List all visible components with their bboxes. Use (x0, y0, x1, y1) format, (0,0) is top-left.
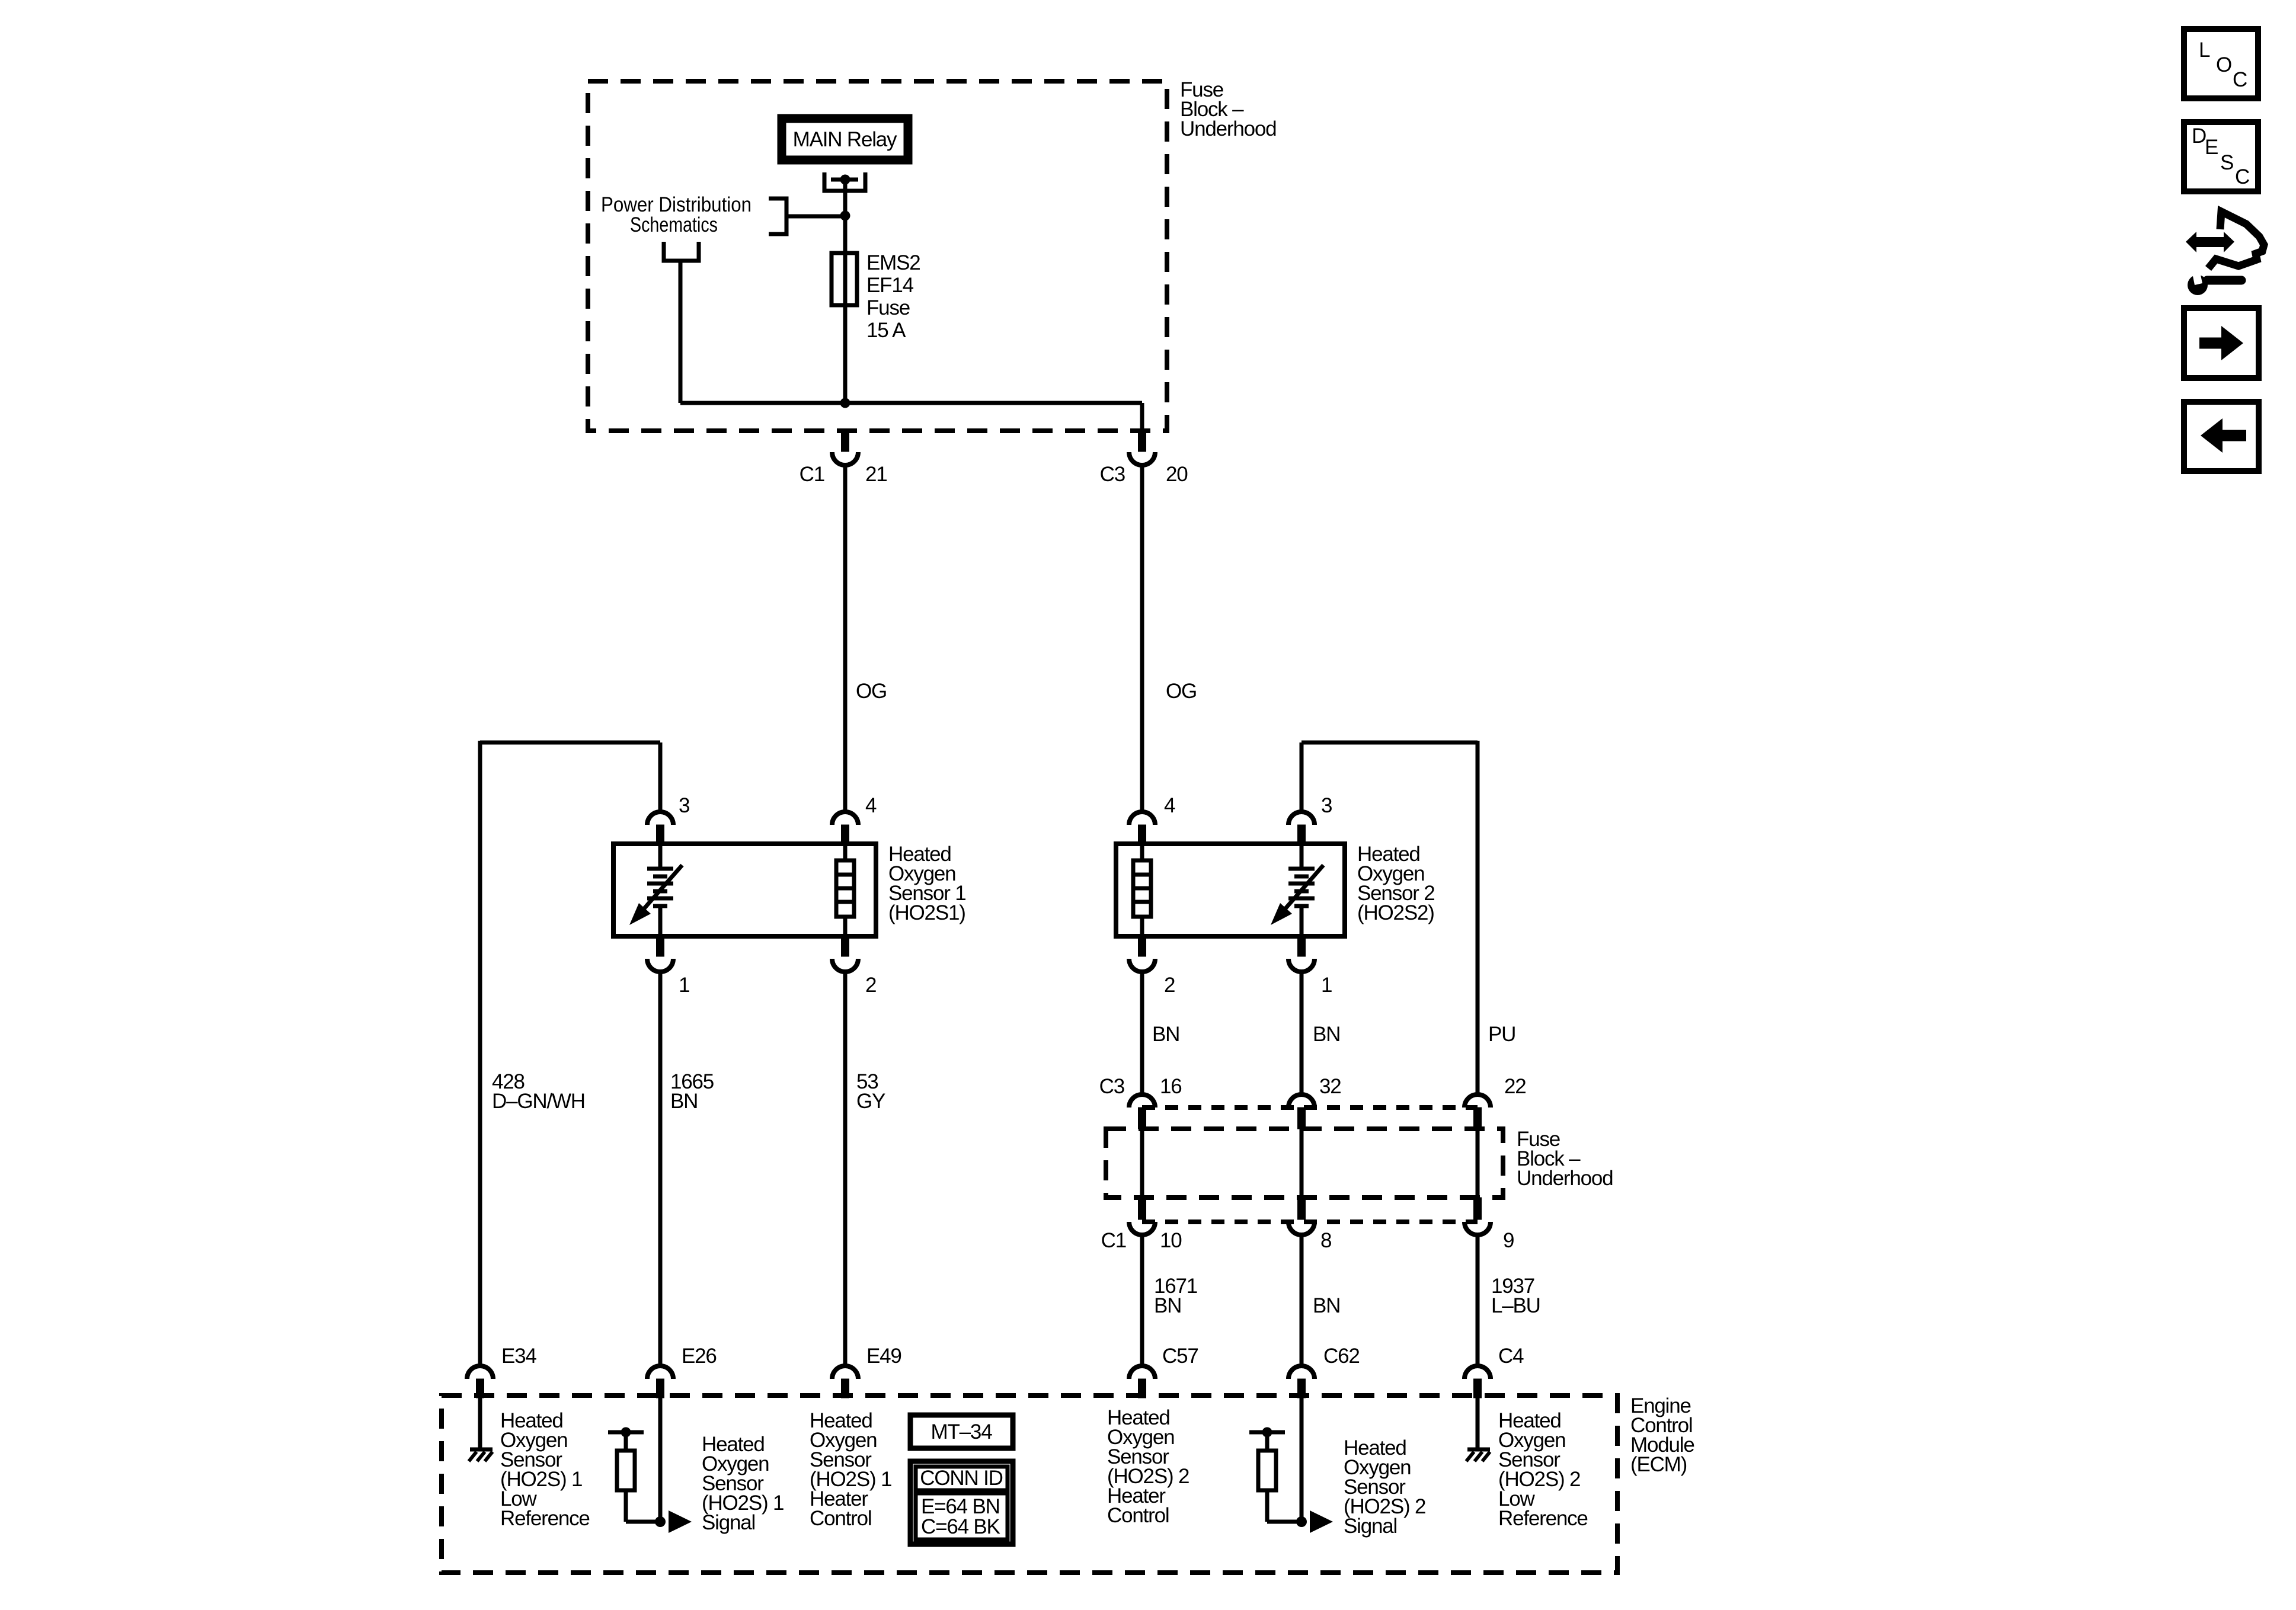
wire C1-21 down to HO2S1 pin 4 (OG) (843, 465, 848, 813)
svg-text:3: 3 (1321, 794, 1332, 817)
wire relay to junction (843, 180, 848, 216)
label HO2S1 Low Reference (500, 1409, 590, 1530)
connector HO2S1 pin 2 (pin+cup) (832, 936, 858, 975)
label pin 3 (HO2S2) (1321, 794, 1332, 817)
svg-text:1: 1 (679, 974, 689, 997)
sensor HO2S2 box (1116, 844, 1345, 936)
label Engine Control Module (ECM) (1630, 1394, 1694, 1476)
label C57 (1162, 1345, 1198, 1368)
svg-text:4: 4 (865, 794, 877, 817)
fuse block 2 dashed box (1106, 1129, 1503, 1198)
wire 8 to C62 (BN) (1300, 1235, 1304, 1366)
connector C62 (dome+pin) (1288, 1366, 1315, 1398)
label pin 3 (HO2S1) (679, 794, 689, 817)
label pin 2 (HO2S2) (1164, 974, 1175, 997)
svg-text:GY: GY (856, 1090, 885, 1113)
label 16 (1160, 1075, 1182, 1098)
icon LOC box (2184, 29, 2258, 98)
wire bracket to junction A (786, 215, 845, 219)
off-page bracket right of Power Distribution (769, 199, 786, 234)
label fuse EMS2 EF14 Fuse 15 A (866, 251, 920, 342)
label 21 (865, 463, 887, 486)
label Heated Oxygen Sensor 2 (HO2S2) (1357, 843, 1435, 924)
connector E49 (dome+pin) (832, 1366, 858, 1398)
svg-text:Reference: Reference (1498, 1507, 1588, 1530)
connector C3 pin 16 (dome+pin) (1129, 1094, 1155, 1129)
label C1 (800, 463, 824, 486)
label BN mid (1313, 1023, 1340, 1046)
resistor branch (HO2S1 signal) (608, 1427, 660, 1522)
wire 10 to C57 (1671 BN) (1140, 1235, 1144, 1366)
label E49 (866, 1345, 901, 1368)
wire E26 inside ECM (658, 1398, 663, 1522)
svg-text:8: 8 (1320, 1229, 1331, 1252)
svg-text:L: L (2199, 39, 2210, 62)
label Fuse Block Underhood (top) (1180, 78, 1276, 140)
svg-text:C1: C1 (1101, 1229, 1126, 1252)
svg-text:10: 10 (1160, 1229, 1182, 1252)
connector C3 pin 20 (pin+cup) (1129, 431, 1155, 468)
label C1 (fuse block) (1101, 1229, 1126, 1252)
icon forward arrow box (2184, 308, 2259, 378)
connector C4 (dome+pin) (1464, 1366, 1491, 1398)
label C62 (1323, 1345, 1360, 1368)
svg-text:3: 3 (679, 794, 689, 817)
label C3 (fuse block) (1099, 1075, 1124, 1098)
icon DESC box (2184, 122, 2258, 191)
svg-text:(HO2S1): (HO2S1) (888, 901, 965, 924)
svg-text:Underhood: Underhood (1517, 1167, 1613, 1190)
resistor branch (HO2S2 signal) (1249, 1427, 1302, 1522)
connector E34 (dome+pin) (467, 1366, 493, 1398)
label pin 2 (HO2S1) (865, 974, 876, 997)
svg-text:OG: OG (1166, 680, 1197, 703)
svg-text:Control: Control (1107, 1504, 1169, 1527)
relay contact symbol (824, 172, 865, 191)
svg-text:BN: BN (1154, 1294, 1181, 1317)
svg-text:BN: BN (1152, 1023, 1179, 1046)
svg-text:1: 1 (1321, 974, 1332, 997)
label OG right (1166, 680, 1197, 703)
wire PU column upper (1476, 741, 1480, 1096)
label 1665 BN (670, 1070, 714, 1113)
label Heated Oxygen Sensor 1 (HO2S1) (888, 843, 966, 924)
svg-text:D–GN/WH: D–GN/WH (492, 1090, 585, 1113)
label pin 4 (HO2S2) (1164, 794, 1175, 817)
svg-text:(HO2S2): (HO2S2) (1357, 901, 1434, 924)
connector HO2S1 pin 1 (pin+cup) (647, 936, 673, 975)
label HO2S1 Heater Control (810, 1409, 891, 1530)
ECM dashed box (442, 1395, 1617, 1573)
svg-text:32: 32 (1319, 1075, 1341, 1098)
wire HO2S1 pin1 to E26 (658, 972, 663, 1366)
svg-text:Signal: Signal (1344, 1515, 1397, 1538)
connector E26 (dome+pin) (647, 1366, 673, 1398)
connector pin 9 (pin+cup) (1464, 1198, 1491, 1238)
connector pin 8 (pin+cup) (1288, 1198, 1315, 1238)
label HO2S2 Low Reference (1498, 1409, 1588, 1530)
connector boundary dotted line (C3 side) (1142, 1105, 1478, 1110)
label 1937 L-BU (1491, 1275, 1540, 1317)
signal arrow (HO2S2) (1310, 1510, 1333, 1533)
svg-text:E26: E26 (682, 1345, 717, 1368)
label C4 (1498, 1345, 1524, 1368)
svg-text:CONN ID: CONN ID (920, 1467, 1002, 1490)
wire pin3 drop (658, 742, 663, 813)
label E34 (501, 1345, 536, 1368)
svg-text:4: 4 (1164, 794, 1175, 817)
label 10 (1160, 1229, 1182, 1252)
svg-text:C: C (2233, 68, 2247, 91)
wire C4 inside ECM (1476, 1398, 1480, 1448)
svg-text:Control: Control (810, 1507, 871, 1530)
svg-text:Signal: Signal (702, 1511, 755, 1534)
svg-text:C4: C4 (1498, 1345, 1524, 1368)
connector C1 pin 10 (pin+cup) (1129, 1198, 1155, 1238)
svg-text:Schematics: Schematics (630, 213, 718, 236)
label pin 1 (HO2S1) (679, 974, 689, 997)
node junction dot B (840, 398, 850, 408)
svg-text:Reference: Reference (500, 1507, 590, 1530)
connector HO2S2 pin 2 (pin+cup) (1129, 936, 1155, 975)
svg-text:S: S (2220, 151, 2233, 174)
label 9 (1503, 1229, 1514, 1252)
wire HO2S1 low-ref top horizontal (480, 741, 660, 745)
icon schematic navigation (arrows + wrench) (2186, 212, 2264, 295)
svg-text:20: 20 (1166, 463, 1188, 486)
label 32 (1319, 1075, 1341, 1098)
svg-text:Underhood: Underhood (1180, 117, 1276, 140)
wire bus right drop (1140, 403, 1144, 433)
svg-text:MAIN Relay: MAIN Relay (793, 128, 897, 151)
svg-text:EF14: EF14 (866, 274, 914, 297)
svg-text:C3: C3 (1099, 1075, 1124, 1098)
wire HO2S2 pin3 top horizontal (1302, 741, 1478, 745)
wire HO2S2 pin2 down (BN) (1140, 972, 1144, 1096)
svg-text:E34: E34 (501, 1345, 536, 1368)
label HO2S2 Heater Control (1107, 1406, 1189, 1527)
svg-text:PU: PU (1488, 1023, 1515, 1046)
relay K: MAIN Relay box (782, 119, 908, 160)
svg-text:15 A: 15 A (866, 319, 906, 342)
fuse EMS2 EF14 15A body (832, 253, 857, 305)
label pin 1 (HO2S2) (1321, 974, 1332, 997)
reference box MT-34 (910, 1415, 1013, 1448)
heater element (HO2S1) (836, 844, 854, 936)
wire HO2S1 pin2 to E49 (843, 972, 848, 1366)
label E26 (682, 1345, 717, 1368)
wire C3-20 down to HO2S2 pin 4 (OG) (1140, 465, 1144, 813)
svg-text:2: 2 (1164, 974, 1175, 997)
label Fuse Block Underhood (lower) (1517, 1128, 1613, 1190)
icon back arrow box (2184, 402, 2259, 471)
label HO2S1 Signal (702, 1433, 784, 1534)
svg-text:O: O (2216, 53, 2231, 76)
label 1671 BN (1154, 1275, 1197, 1317)
connector HO2S2 pin 3 (dome+pin) (1288, 812, 1315, 844)
CONN ID table (910, 1461, 1013, 1544)
fuse block underhood dashed box (588, 81, 1167, 431)
svg-text:C: C (2235, 165, 2249, 188)
ground (HO2S2 low reference) (1466, 1449, 1490, 1461)
svg-text:MT–34: MT–34 (931, 1420, 993, 1443)
svg-text:BN: BN (1313, 1294, 1340, 1317)
connector C57 (dome+pin) (1129, 1366, 1155, 1398)
connector HO2S2 pin 4 (dome+pin) (1129, 812, 1155, 844)
node junction dot A (840, 211, 850, 221)
svg-text:D: D (2192, 124, 2206, 148)
wire E34 inside ECM (478, 1398, 482, 1448)
svg-text:BN: BN (1313, 1023, 1340, 1046)
svg-text:C1: C1 (800, 463, 824, 486)
sensor HO2S1 box (613, 844, 876, 936)
wire bracket down to bus (679, 261, 683, 403)
svg-text:16: 16 (1160, 1075, 1182, 1098)
wire 9 to C4 (1937 L-BU) (1476, 1235, 1480, 1366)
heater element (HO2S2) (1133, 844, 1151, 936)
svg-text:EMS2: EMS2 (866, 251, 920, 274)
svg-text:C3: C3 (1100, 463, 1125, 486)
wire pin3' drop (1300, 742, 1304, 813)
connector C1 pin 21 (pin+cup) (832, 431, 858, 468)
connector pin 32 (dome+pin) (1288, 1094, 1315, 1129)
wire HO2S2 pin1 down (BN) (1300, 972, 1304, 1096)
label 8 (1320, 1229, 1331, 1252)
label 22 (1504, 1075, 1526, 1098)
variable voltage source (HO2S2 sense element) (1271, 844, 1323, 936)
wire E34 column upper (478, 741, 482, 1366)
label OG left (856, 680, 887, 703)
label 53 GY (856, 1070, 885, 1113)
label HO2S2 Signal (1344, 1436, 1425, 1538)
label 20 (1166, 463, 1188, 486)
svg-text:9: 9 (1503, 1229, 1514, 1252)
ground (HO2S1 low reference) (469, 1449, 493, 1461)
label PU (1488, 1023, 1515, 1046)
connector pin 22 (dome+pin) (1464, 1094, 1491, 1129)
signal arrow (HO2S1) (669, 1510, 692, 1533)
connector boundary dotted line (C1 side) (1142, 1219, 1478, 1224)
svg-text:OG: OG (856, 680, 887, 703)
svg-text:C62: C62 (1323, 1345, 1360, 1368)
label 428 D-GN/WH (492, 1070, 585, 1113)
svg-text:2: 2 (865, 974, 876, 997)
label BN left (1152, 1023, 1179, 1046)
wire through fuse block col E (1300, 1129, 1304, 1198)
svg-text:C=64 BK: C=64 BK (921, 1515, 1000, 1538)
connector HO2S1 pin 3 (dome+pin) (647, 812, 673, 844)
label C3 (1100, 463, 1125, 486)
wire through fuse block col D (1140, 1129, 1144, 1198)
svg-text:(ECM): (ECM) (1630, 1453, 1687, 1476)
svg-text:C57: C57 (1162, 1345, 1198, 1368)
svg-text:L–BU: L–BU (1491, 1294, 1540, 1317)
wire C62 inside ECM (1300, 1398, 1304, 1522)
wire power bus (680, 401, 1142, 405)
label pin 4 (HO2S1) (865, 794, 877, 817)
connector HO2S1 pin 4 (dome+pin) (832, 812, 858, 844)
off-page bracket below Schematics (664, 242, 699, 261)
node junction dot (HO2S2 signal) (1296, 1516, 1307, 1527)
node junction dot (HO2S1 signal) (655, 1516, 666, 1527)
label BN lower mid (1313, 1294, 1340, 1317)
wire through fuse block col F (1476, 1129, 1480, 1198)
connector HO2S2 pin 1 (pin+cup) (1288, 936, 1315, 975)
label Power Distribution Schematics (601, 193, 752, 236)
svg-text:Fuse: Fuse (866, 296, 910, 319)
svg-text:E49: E49 (866, 1345, 901, 1368)
svg-text:21: 21 (865, 463, 887, 486)
variable voltage source (HO2S1 sense element) (629, 844, 682, 936)
svg-text:E: E (2205, 136, 2218, 159)
svg-text:22: 22 (1504, 1075, 1526, 1098)
wire junction A to fuse (843, 216, 848, 403)
svg-text:BN: BN (670, 1090, 698, 1113)
